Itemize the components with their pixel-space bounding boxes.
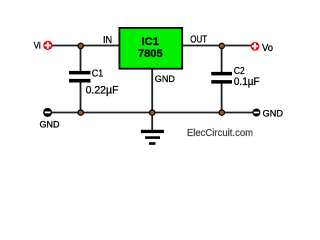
- svg-text:IN: IN: [103, 34, 112, 46]
- svg-text:0.1µF: 0.1µF: [234, 76, 260, 88]
- svg-text:Vi: Vi: [34, 41, 41, 51]
- svg-text:ElecCircuit.com: ElecCircuit.com: [187, 128, 253, 139]
- svg-text:C1: C1: [92, 68, 104, 79]
- svg-text:7805: 7805: [138, 48, 163, 60]
- svg-text:Vo: Vo: [262, 43, 273, 54]
- svg-text:IC1: IC1: [142, 36, 159, 48]
- svg-text:GND: GND: [155, 74, 175, 84]
- svg-text:0.22µF: 0.22µF: [86, 85, 119, 97]
- svg-text:GND: GND: [40, 120, 60, 131]
- svg-text:OUT: OUT: [190, 34, 207, 45]
- svg-text:GND: GND: [263, 108, 284, 119]
